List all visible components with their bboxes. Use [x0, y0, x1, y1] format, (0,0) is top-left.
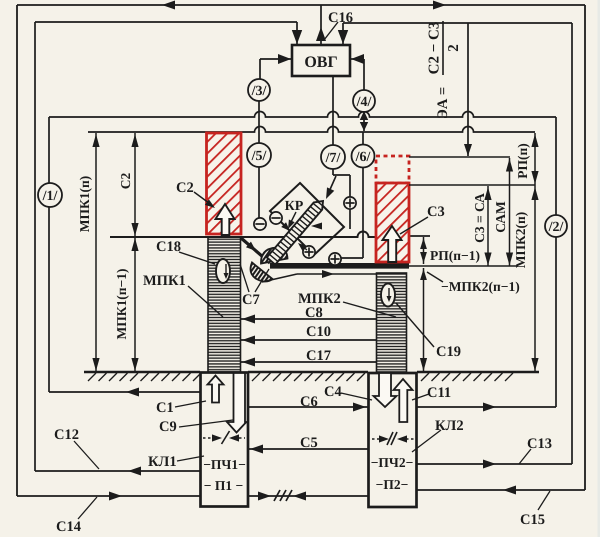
svg-text:С1: С1	[156, 400, 174, 416]
svg-text:С3 = СА: С3 = СА	[472, 193, 487, 243]
svg-text:С8: С8	[305, 305, 323, 321]
svg-text:МПК1(п): МПК1(п)	[77, 176, 92, 233]
svg-text:С15: С15	[520, 512, 545, 528]
svg-text:С2: С2	[118, 173, 133, 190]
svg-text:МПК1(п−1): МПК1(п−1)	[114, 269, 129, 340]
svg-text:С12: С12	[54, 427, 79, 443]
svg-text:/4/: /4/	[356, 95, 373, 110]
svg-text:−ПЧ1−: −ПЧ1−	[203, 457, 246, 472]
svg-text:−ПЧ2−: −ПЧ2−	[371, 455, 414, 470]
svg-text:С4: С4	[324, 384, 342, 400]
svg-text:−МПК2(п−1): −МПК2(п−1)	[441, 279, 520, 294]
svg-text:2: 2	[446, 44, 462, 52]
svg-text:/3/: /3/	[251, 84, 268, 99]
svg-text:−П2−: −П2−	[376, 477, 409, 492]
svg-text:/2/: /2/	[548, 220, 565, 235]
svg-text:С2: С2	[176, 180, 194, 196]
svg-text:С14: С14	[56, 519, 81, 535]
svg-text:/6/: /6/	[355, 150, 372, 165]
svg-text:РП(п−1): РП(п−1)	[430, 248, 480, 263]
svg-text:РП(п): РП(п)	[515, 143, 530, 179]
svg-text:С3: С3	[427, 204, 445, 220]
svg-text:С2 − С3: С2 − С3	[427, 22, 443, 75]
svg-text:ЭА =: ЭА =	[435, 87, 451, 119]
svg-text:ОВГ: ОВГ	[304, 54, 337, 71]
svg-text:С6: С6	[300, 394, 318, 410]
svg-text:САМ: САМ	[493, 201, 508, 233]
svg-text:С5: С5	[300, 435, 318, 451]
svg-text:С7: С7	[242, 292, 260, 308]
svg-text:С17: С17	[306, 348, 331, 364]
svg-text:− П1 −: − П1 −	[204, 478, 243, 493]
svg-text:/1/: /1/	[42, 189, 59, 204]
svg-text:С19: С19	[436, 344, 461, 360]
svg-text:КЛ1: КЛ1	[148, 454, 177, 470]
svg-text:МПК1: МПК1	[143, 273, 186, 289]
svg-text:МПК2(п): МПК2(п)	[513, 212, 528, 269]
svg-text:С10: С10	[306, 324, 331, 340]
svg-text:/7/: /7/	[325, 151, 342, 166]
svg-text:С11: С11	[427, 385, 451, 401]
svg-text:/5/: /5/	[251, 149, 268, 164]
svg-text:С9: С9	[159, 419, 177, 435]
svg-text:КР: КР	[285, 199, 304, 214]
svg-text:С16: С16	[328, 10, 353, 26]
svg-text:С18: С18	[156, 239, 181, 255]
